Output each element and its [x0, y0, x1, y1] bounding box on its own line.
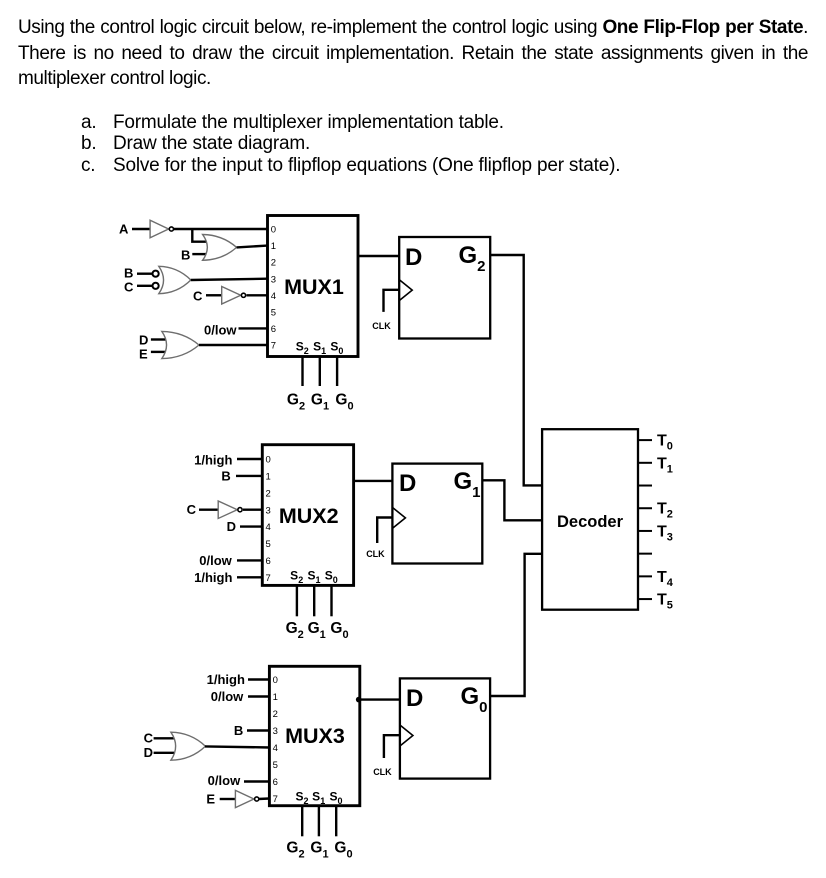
wire B to NOR bubble: [137, 273, 152, 275]
wire C to OR gate: [154, 737, 174, 739]
svg-text:4: 4: [266, 522, 271, 533]
svg-text:6: 6: [266, 556, 271, 567]
svg-text:7: 7: [266, 573, 271, 584]
wire D to MUX2 pin 4: [240, 525, 262, 527]
wire 0/low to MUX1 pin 6: [239, 327, 268, 329]
wire U2 G1 output to decoder: [482, 480, 542, 520]
svg-text:CLK: CLK: [372, 321, 391, 331]
wire branch to OR gate top input: [192, 229, 206, 242]
wire OR output to MUX1 pin 1: [237, 246, 268, 248]
svg-text:T4: T4: [657, 569, 674, 589]
svg-text:1/high: 1/high: [194, 570, 232, 585]
svg-text:T3: T3: [657, 523, 673, 543]
svg-text:G0: G0: [330, 620, 348, 641]
svg-text:G1: G1: [310, 840, 328, 861]
svg-text:0/low: 0/low: [199, 553, 232, 568]
decoder U4 box: [542, 429, 638, 610]
wire MUX1 output to U1 D input: [358, 255, 399, 257]
wire CLK to U3: [384, 735, 400, 758]
svg-text:T2: T2: [657, 501, 673, 521]
MUX1 select wire S2: [301, 357, 303, 387]
svg-text:G0: G0: [335, 392, 353, 413]
flip-flop U2 (D / G1) box: [392, 464, 482, 564]
decoder output stub 4: [638, 530, 652, 532]
flip-flop U3 (D / G0) box: [400, 678, 490, 778]
svg-text:Decoder: Decoder: [557, 513, 624, 531]
svg-text:2: 2: [266, 488, 271, 499]
svg-text:B: B: [234, 723, 243, 738]
svg-text:G1: G1: [308, 620, 326, 641]
svg-text:1: 1: [266, 472, 271, 483]
wire E to inverter: [220, 798, 236, 800]
wire E to OR gate: [151, 351, 166, 353]
decoder output stub 7: [638, 598, 652, 600]
svg-text:A: A: [119, 222, 129, 237]
flip-flop U1 (D / G2) box: [399, 237, 490, 339]
svg-text:5: 5: [266, 539, 271, 550]
svg-text:1: 1: [273, 692, 278, 703]
svg-text:4: 4: [273, 743, 278, 754]
wire B to MUX3 pin 3: [247, 729, 269, 731]
wire U1 G2 output to decoder: [490, 255, 542, 485]
wire inverter output to MUX1 pin 0: [174, 228, 268, 230]
svg-text:1/high: 1/high: [194, 452, 232, 467]
svg-text:2: 2: [273, 709, 278, 720]
mux M2 (MUX2) box: [262, 445, 353, 586]
svg-text:0: 0: [266, 455, 271, 466]
svg-text:B: B: [124, 266, 133, 281]
svg-text:C: C: [193, 289, 203, 304]
svg-text:G2: G2: [287, 392, 305, 413]
svg-text:CLK: CLK: [366, 549, 385, 559]
svg-text:G1: G1: [311, 392, 329, 413]
OR gate for MUX1 pin 7: [162, 331, 199, 358]
wire B to MUX2 pin 1: [236, 475, 262, 477]
svg-text:T1: T1: [657, 455, 673, 475]
svg-text:3: 3: [271, 274, 276, 285]
decoder output stub 5: [638, 553, 652, 555]
decoder output stub 1: [638, 462, 652, 464]
svg-text:D: D: [405, 244, 422, 271]
svg-text:D: D: [139, 333, 148, 348]
wire C to NOR bubble: [137, 285, 152, 287]
decoder output stub 2: [638, 485, 652, 487]
svg-text:C: C: [144, 731, 154, 746]
svg-text:6: 6: [271, 324, 276, 335]
svg-text:0/low: 0/low: [211, 689, 244, 704]
svg-text:2: 2: [271, 258, 276, 269]
svg-text:5: 5: [273, 760, 278, 771]
svg-text:B: B: [221, 469, 230, 484]
svg-text:1: 1: [271, 241, 276, 252]
wire 1/high to MUX2 pin 0: [237, 458, 262, 460]
svg-text:7: 7: [271, 341, 276, 352]
wire MUX3 output to U3 D input: [360, 698, 400, 700]
svg-text:E: E: [206, 792, 215, 807]
svg-text:6: 6: [273, 777, 278, 788]
inverter (A) for MUX1 pin 0: [150, 220, 173, 238]
MUX1 select wire S1: [319, 357, 321, 387]
inverter (C) for MUX2 pin 3: [218, 501, 242, 519]
junction dot at MUX3 output: [356, 697, 362, 703]
wire 0/low to MUX3 pin 1: [248, 695, 269, 697]
svg-text:3: 3: [273, 726, 278, 737]
svg-text:0/low: 0/low: [208, 773, 241, 788]
wire U3 G0 output to decoder: [490, 554, 542, 696]
svg-text:5: 5: [271, 307, 276, 318]
svg-text:0: 0: [273, 675, 278, 686]
svg-text:1/high: 1/high: [207, 672, 245, 687]
svg-text:4: 4: [271, 291, 276, 302]
svg-text:E: E: [139, 347, 148, 362]
wire C to inverter: [199, 509, 218, 511]
wire A to inverter: [132, 228, 150, 230]
svg-text:G2: G2: [286, 620, 304, 641]
OR gate for MUX1 pin 1: [203, 235, 237, 261]
mux M3 (MUX3) box: [269, 666, 359, 805]
svg-text:CLK: CLK: [373, 767, 392, 777]
svg-text:D: D: [227, 519, 236, 534]
MUX2 select wire S0: [330, 585, 332, 616]
flip-flop U2 clock triangle: [392, 507, 405, 528]
wire C to inverter: [206, 294, 222, 296]
inverter (E) for MUX3 pin 7: [235, 790, 258, 807]
svg-text:G0: G0: [334, 840, 352, 861]
wire B to OR gate: [192, 253, 206, 255]
svg-text:B: B: [181, 248, 190, 263]
wire D to OR gate: [151, 338, 166, 340]
wire 1/high to MUX3 pin 0: [248, 678, 269, 680]
svg-text:D: D: [399, 470, 416, 497]
wire OR output to MUX1 pin 7: [199, 344, 268, 346]
MUX2 select wire S1: [313, 585, 315, 616]
NOR gate input bubbles: [153, 271, 159, 289]
flip-flop U1 clock triangle: [399, 280, 412, 301]
svg-text:3: 3: [266, 505, 271, 516]
OR gate for MUX3 pin 4: [171, 732, 206, 760]
decoder output stub 6: [638, 575, 652, 577]
svg-text:D: D: [406, 685, 423, 712]
svg-text:0/low: 0/low: [204, 323, 237, 338]
wire inverter output to MUX3 pin 7: [258, 797, 269, 800]
wire 1/high to MUX2 pin 7: [237, 576, 262, 578]
MUX2 select wire S2: [296, 585, 298, 616]
MUX1 select wire S0: [336, 357, 338, 387]
wire OR output to MUX3 pin 4: [205, 746, 269, 747]
svg-text:0: 0: [271, 225, 276, 236]
svg-text:MUX1: MUX1: [284, 275, 344, 299]
flip-flop U3 clock triangle: [400, 725, 413, 746]
MUX3 select wire S0: [335, 806, 337, 837]
svg-text:7: 7: [273, 794, 278, 805]
svg-text:T5: T5: [657, 592, 673, 612]
wire inverter output to MUX2 pin 3: [243, 509, 262, 511]
svg-text:MUX2: MUX2: [279, 504, 339, 528]
svg-text:D: D: [144, 745, 153, 760]
wire CLK to U1: [384, 290, 400, 312]
MUX3 select wire S2: [301, 806, 303, 837]
wire NOR output to MUX1 pin 3: [191, 279, 268, 280]
inverter (C) for MUX1 pin 4: [222, 287, 246, 305]
wire 0/low to MUX2 pin 6: [237, 559, 262, 561]
mux M1 (MUX1) box: [268, 216, 359, 357]
MUX3 select wire S1: [318, 806, 320, 837]
NOR gate body for MUX1 pin 3: [159, 266, 191, 293]
wire inverter output to MUX1 pin 4: [247, 294, 268, 296]
wire 0/low to MUX3 pin 6: [244, 780, 269, 782]
svg-text:C: C: [124, 280, 134, 295]
svg-text:C: C: [187, 502, 197, 517]
svg-text:MUX3: MUX3: [285, 724, 345, 748]
svg-text:G2: G2: [286, 840, 304, 861]
decoder output stub 3: [638, 507, 652, 509]
wire MUX2 output to U2 D input: [354, 480, 393, 482]
svg-text:T0: T0: [657, 433, 673, 453]
wire D to OR gate: [154, 752, 174, 754]
wire CLK to U2: [377, 518, 392, 544]
decoder output stub 0: [638, 439, 652, 441]
